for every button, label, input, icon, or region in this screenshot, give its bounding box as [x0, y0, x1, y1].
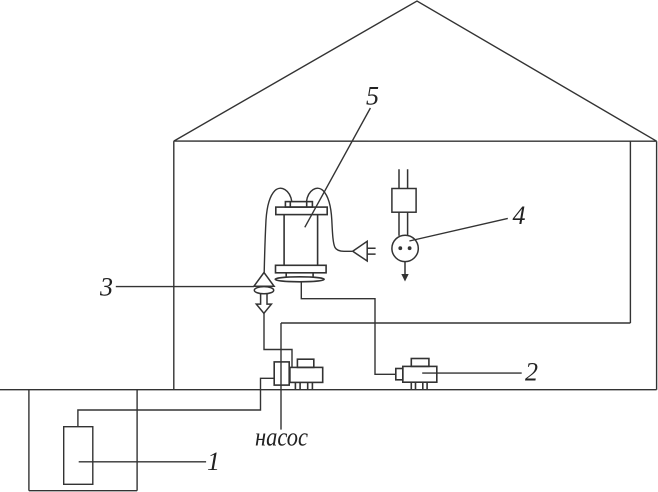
- house left wall: [173, 141, 175, 390]
- svg-text:насос: насос: [255, 423, 308, 452]
- wire drop to pump and насос leader: [280, 323, 282, 430]
- pump main body: [290, 367, 323, 382]
- foot valve V1: [64, 427, 93, 485]
- filter F3 ellipse: [254, 287, 273, 294]
- pump feet: [295, 382, 312, 389]
- svg-text:4: 4: [513, 201, 526, 230]
- pump left box: [274, 362, 289, 385]
- unit2 main body: [403, 366, 437, 382]
- suction pipe pump to well: [78, 378, 274, 426]
- socket S4 head circle: [392, 235, 418, 261]
- left hose boiler to filter: [264, 188, 292, 272]
- house roof: [174, 1, 657, 141]
- pump top cap: [297, 359, 313, 367]
- pipe filter to pump: [264, 313, 292, 367]
- filter F3 triangle: [254, 273, 274, 287]
- unit2 feet: [411, 382, 427, 389]
- well bottom: [29, 490, 137, 492]
- socket S4 down arrow: [404, 262, 406, 277]
- svg-text:2: 2: [525, 358, 538, 387]
- valve V1 leader line: [79, 461, 206, 463]
- socket S4 top prongs: [399, 169, 408, 188]
- boiler U5 body: [284, 215, 318, 266]
- plug symbol: [353, 241, 368, 261]
- socket S4 body: [392, 189, 416, 213]
- boiler U5 neck: [286, 273, 313, 277]
- boiler drain pipe to unit 2: [301, 282, 396, 375]
- boiler U5 cap nozzle lines: [290, 202, 306, 208]
- leader line label 4: [409, 218, 507, 241]
- svg-text:3: 3: [99, 272, 113, 301]
- plug prongs: [367, 248, 375, 254]
- well left wall: [28, 390, 30, 491]
- unit2 left box: [396, 369, 403, 380]
- boiler U5 top flange: [276, 207, 327, 215]
- svg-text:1: 1: [207, 447, 220, 476]
- wire horizontal run at y=323: [281, 322, 630, 324]
- ground line: [0, 389, 657, 391]
- wire riser from ceiling down right wall: [629, 141, 631, 323]
- house right wall: [656, 141, 658, 390]
- svg-text:5: 5: [366, 82, 379, 111]
- boiler U5 bottom flange: [276, 265, 327, 273]
- right hose boiler to plug: [307, 188, 353, 251]
- filter F3 hollow arrow: [256, 294, 271, 314]
- boiler U5 base ellipse: [275, 277, 324, 282]
- socket S4 holes: [398, 246, 402, 250]
- unit2 leader line: [422, 372, 522, 374]
- unit2 top cap: [411, 359, 429, 367]
- leader line label 3: [116, 286, 254, 288]
- house eaves line: [174, 140, 657, 142]
- boiler U5 cap: [285, 202, 312, 208]
- socket S4 stem: [399, 212, 408, 236]
- leader line label 5: [305, 108, 371, 227]
- well right wall: [136, 390, 138, 491]
